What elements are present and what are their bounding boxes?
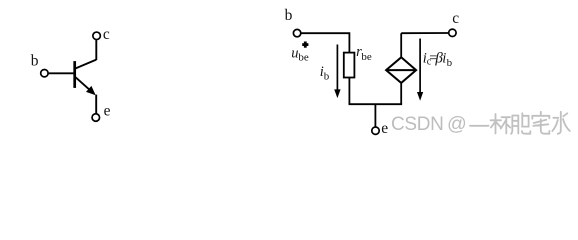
svg-text:be: be: [361, 51, 372, 63]
svg-text:b: b: [324, 71, 330, 83]
wire: diamond to c terminal (top): [401, 32, 448, 34]
svg-text:b: b: [285, 7, 293, 24]
current arrow i_b: [334, 45, 340, 99]
wire: diamond bottom stub: [400, 83, 402, 104]
watermark chinese characters: [470, 112, 570, 134]
svg-text:u: u: [291, 46, 298, 62]
svg-text:e: e: [104, 103, 111, 120]
node c terminal circle (left): [93, 32, 101, 40]
svg-text:b: b: [447, 57, 453, 69]
char fei: [511, 113, 530, 134]
svg-text:@: @: [447, 113, 467, 135]
current source mid bar: [386, 69, 416, 71]
wire: b to rbe branch (top): [301, 33, 349, 52]
transistor Q1 base bar: [73, 61, 76, 88]
wire: below resistor to bottom rail: [348, 78, 350, 105]
wire: bottom rail: [349, 103, 403, 105]
current arrow i_c: [417, 39, 423, 101]
svg-text:b: b: [31, 52, 39, 69]
svg-text:c: c: [103, 26, 110, 43]
resistor r_be: [344, 53, 355, 78]
wire: diamond top stub: [400, 33, 402, 57]
char shui: [552, 112, 570, 134]
wire: collector vertical: [95, 40, 97, 60]
node c terminal circle (right): [449, 29, 456, 36]
polarity plus sign: [302, 42, 308, 48]
char zhai: [532, 112, 549, 134]
node b terminal circle (left): [41, 70, 48, 77]
wire: e stub down from rail: [374, 104, 376, 127]
node e terminal circle (left): [92, 114, 100, 122]
char bei: [491, 114, 511, 134]
svg-text:CSDN: CSDN: [391, 114, 443, 135]
transistor Q1 (left BJT symbol): [41, 32, 101, 121]
wire: base lead: [49, 72, 74, 74]
wire: emitter vertical: [95, 95, 97, 114]
node e terminal circle (right): [372, 127, 379, 134]
char yi: [470, 125, 489, 127]
svg-text:be: be: [298, 51, 309, 63]
svg-text:c: c: [452, 10, 459, 27]
transistor Q1 emitter arrowhead: [86, 86, 96, 95]
node b terminal circle (right): [293, 29, 300, 36]
equivalent circuit (right): [293, 29, 456, 134]
wire: emitter diagonal with arrow: [76, 77, 91, 90]
wire: collector diagonal: [76, 60, 97, 69]
dependent current source (diamond): [386, 57, 416, 83]
svg-text:e: e: [381, 120, 388, 137]
